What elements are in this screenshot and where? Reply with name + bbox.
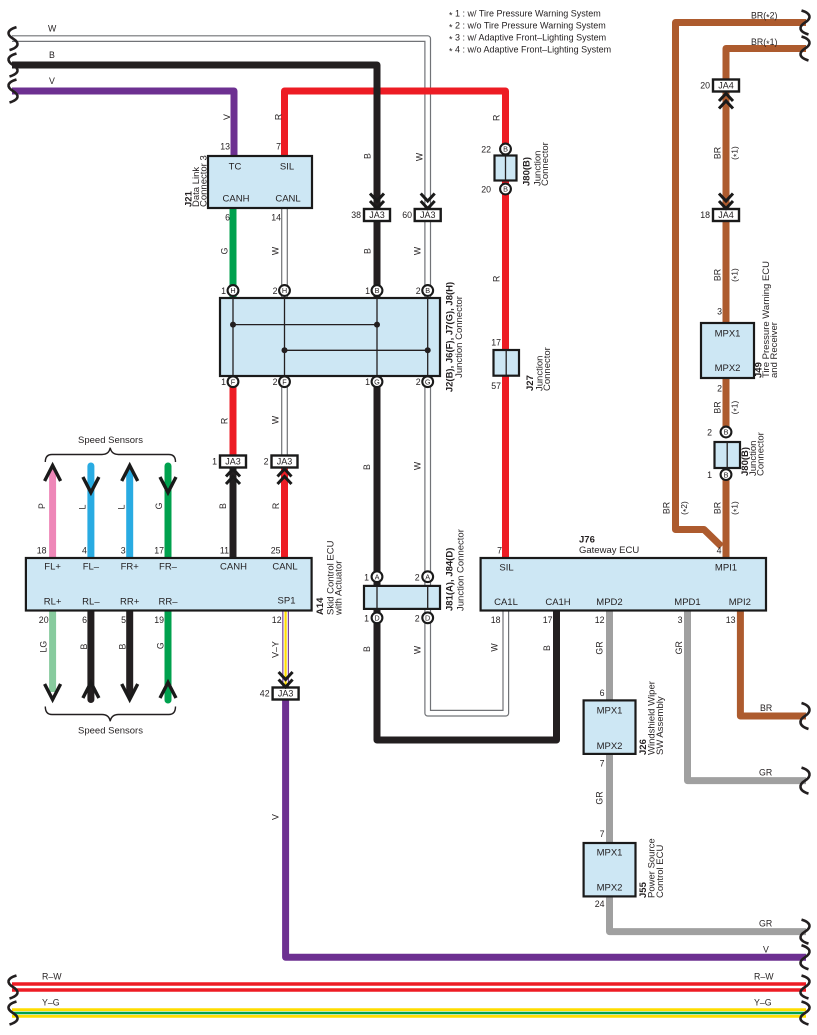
svg-text:A: A xyxy=(375,572,380,581)
svg-text:17: 17 xyxy=(491,338,501,348)
svg-text:FR–: FR– xyxy=(159,562,178,573)
wire BR J76 MPI2 pin13 to right xyxy=(740,611,806,716)
svg-text:B: B xyxy=(362,646,372,652)
ECU J76 Gateway ECU box xyxy=(481,558,766,611)
svg-text:14: 14 xyxy=(271,213,281,223)
svg-text:SIL: SIL xyxy=(499,563,513,574)
svg-text:Y–G: Y–G xyxy=(42,998,60,1008)
svg-text:CANL: CANL xyxy=(272,562,297,573)
svg-text:7: 7 xyxy=(600,759,605,769)
arrow double chevron up into JA3-2 xyxy=(278,469,292,484)
break squiggle right BR xyxy=(800,703,809,729)
svg-text:B: B xyxy=(503,185,508,194)
arrow up speed sensor RL- xyxy=(83,683,99,699)
wire B junction G1 to J81 A1 xyxy=(374,376,381,586)
wire LG speed sensor RL+ xyxy=(49,610,56,692)
svg-text:42: 42 xyxy=(260,688,270,698)
svg-text:MPI2: MPI2 xyxy=(729,597,751,608)
break squiggle right R-W xyxy=(800,976,809,999)
svg-text:SIL: SIL xyxy=(280,162,294,173)
wire L speed sensor FL- xyxy=(87,466,94,558)
break squiggle right BR(*1) xyxy=(800,37,809,61)
svg-text:R: R xyxy=(271,503,281,509)
svg-text:B: B xyxy=(425,286,430,295)
svg-text:R: R xyxy=(492,115,502,121)
arrow down speed sensor RL+ xyxy=(45,684,61,700)
svg-text:* 2 : w/o Tire Pressure Warnin: * 2 : w/o Tire Pressure Warning System xyxy=(449,21,606,33)
svg-text:57: 57 xyxy=(491,381,501,391)
svg-text:Control ECU: Control ECU xyxy=(655,845,666,898)
svg-text:13: 13 xyxy=(726,615,736,625)
arrow double chevron down into JA3-60 xyxy=(421,194,435,209)
junction internal wires xyxy=(233,298,428,376)
arrow double chevron up into JA3-1 xyxy=(226,469,240,484)
wire GR J76 MPD1 pin3 down and right xyxy=(688,611,807,781)
svg-text:6: 6 xyxy=(82,615,87,625)
svg-text:W: W xyxy=(413,246,423,255)
svg-text:L: L xyxy=(78,504,88,509)
svg-text:JA3: JA3 xyxy=(278,689,294,699)
svg-text:B: B xyxy=(363,153,373,159)
svg-text:G: G xyxy=(156,642,166,649)
svg-text:J81(A), J84(D): J81(A), J84(D) xyxy=(445,548,456,611)
svg-text:CANH: CANH xyxy=(220,562,247,573)
wire V JA3-42 down and across bottom xyxy=(286,700,806,958)
svg-text:Junction Connector: Junction Connector xyxy=(456,529,467,611)
connector JA3-60 box xyxy=(415,209,441,221)
svg-text:B: B xyxy=(724,428,729,437)
circle letters xyxy=(230,145,728,623)
wire B speed sensor RL- xyxy=(87,610,94,700)
svg-text:1: 1 xyxy=(365,377,370,387)
pin circles J81 row D xyxy=(372,612,383,623)
svg-text:LG: LG xyxy=(39,641,49,653)
connector JA4-20 box xyxy=(713,80,739,92)
wire V top-left to J21 TC xyxy=(12,91,234,156)
svg-text:7: 7 xyxy=(600,829,605,839)
svg-text:2: 2 xyxy=(415,613,420,623)
break squiggle right Y-G xyxy=(800,1002,809,1025)
svg-text:W: W xyxy=(271,415,281,424)
svg-text:B: B xyxy=(542,645,552,651)
svg-text:W: W xyxy=(415,152,425,161)
svg-text:18: 18 xyxy=(491,615,501,625)
wire BR(*2) right column xyxy=(676,23,807,547)
svg-text:Connector: Connector xyxy=(542,347,553,391)
wire Y-G bottom xyxy=(12,1008,806,1017)
svg-text:MPX1: MPX1 xyxy=(715,329,741,340)
svg-text:R: R xyxy=(274,114,284,120)
break squiggle right BR(*2) xyxy=(800,11,809,35)
svg-text:FL–: FL– xyxy=(83,562,100,573)
svg-text:25: 25 xyxy=(271,546,281,556)
wire BR J49 pin2 to J80(B) xyxy=(723,378,730,432)
wire B J81 D1 down, across, up to J76 CA1H xyxy=(377,609,557,740)
ECU A14 Skid Control ECU with Actuator box xyxy=(26,558,312,611)
svg-text:6: 6 xyxy=(225,213,230,223)
svg-text:TC: TC xyxy=(229,162,242,173)
svg-text:G: G xyxy=(374,377,380,386)
svg-text:Connector: Connector xyxy=(540,142,551,186)
svg-text:MPI1: MPI1 xyxy=(715,563,737,574)
svg-text:2: 2 xyxy=(707,428,712,438)
speed sensors captions xyxy=(78,435,143,737)
svg-text:W: W xyxy=(48,24,57,34)
svg-text:MPX1: MPX1 xyxy=(597,848,623,859)
brace speed sensors top xyxy=(45,448,175,462)
svg-text:1: 1 xyxy=(365,286,370,296)
arrow up speed sensor FL+ xyxy=(45,466,61,482)
svg-text:2: 2 xyxy=(273,377,278,387)
arrow down speed sensor FL- xyxy=(83,477,99,493)
svg-text:B: B xyxy=(375,286,380,295)
svg-text:7: 7 xyxy=(276,142,281,152)
svg-text:3: 3 xyxy=(678,615,683,625)
svg-text:12: 12 xyxy=(595,615,605,625)
svg-text:G: G xyxy=(220,247,230,254)
svg-text:1: 1 xyxy=(364,572,369,582)
svg-text:GR: GR xyxy=(759,768,772,778)
box port labels xyxy=(44,162,751,894)
component designator labels xyxy=(184,142,781,898)
svg-text:P: P xyxy=(37,503,47,509)
break squiggle left V xyxy=(8,80,17,103)
wire R-W bottom xyxy=(12,982,806,991)
svg-text:* 3 : w/ Adaptive Front–Lighti: * 3 : w/ Adaptive Front–Lighting System xyxy=(449,33,606,45)
pin circles junction J2 row F/G xyxy=(228,376,239,387)
svg-text:SP1: SP1 xyxy=(278,596,296,607)
svg-text:FL+: FL+ xyxy=(44,562,61,573)
svg-text:19: 19 xyxy=(154,615,164,625)
notes legend xyxy=(449,9,611,57)
wire BR(*1) top right to JA4-20 xyxy=(726,49,806,81)
svg-text:Gateway ECU: Gateway ECU xyxy=(579,545,639,556)
svg-text:(*1): (*1) xyxy=(730,146,742,160)
svg-text:MPD2: MPD2 xyxy=(596,597,622,608)
svg-text:Connector: Connector xyxy=(756,432,767,476)
svg-text:* 1 : w/ Tire Pressure Warning: * 1 : w/ Tire Pressure Warning System xyxy=(449,9,601,21)
svg-text:BR: BR xyxy=(760,703,772,713)
svg-text:J76: J76 xyxy=(579,535,595,546)
svg-text:2: 2 xyxy=(717,384,722,394)
svg-text:Connector 3: Connector 3 xyxy=(199,155,210,207)
svg-text:Speed Sensors: Speed Sensors xyxy=(78,726,143,737)
pin circles J80(B) right xyxy=(721,427,732,438)
svg-text:B: B xyxy=(503,145,508,154)
svg-text:(*2): (*2) xyxy=(679,501,691,515)
svg-text:MPX1: MPX1 xyxy=(597,706,623,717)
svg-text:GR: GR xyxy=(595,791,605,804)
svg-text:W: W xyxy=(490,643,500,652)
svg-text:with Actuator: with Actuator xyxy=(334,561,345,616)
svg-text:24: 24 xyxy=(595,899,605,909)
svg-text:L: L xyxy=(116,504,126,509)
svg-text:F: F xyxy=(231,377,236,386)
pin circles J80(B) upper xyxy=(500,144,511,155)
arrow double chevron down into JA4-18 xyxy=(719,194,733,209)
wire BR J80(B) to J76 MPI1 pin4 xyxy=(723,475,730,558)
wire B speed sensor RR+ xyxy=(126,610,133,696)
svg-text:JA3: JA3 xyxy=(420,210,436,220)
svg-text:RR+: RR+ xyxy=(120,597,140,608)
svg-text:Speed Sensors: Speed Sensors xyxy=(78,435,143,446)
svg-text:CA1H: CA1H xyxy=(545,597,570,608)
wire L speed sensor FR+ xyxy=(126,469,133,558)
svg-text:B: B xyxy=(79,644,89,650)
svg-text:W: W xyxy=(413,645,423,654)
svg-text:R–W: R–W xyxy=(754,972,774,982)
svg-text:JA3: JA3 xyxy=(277,457,293,467)
svg-text:2: 2 xyxy=(415,572,420,582)
junction connector J80(B) upper box xyxy=(495,156,517,181)
junction connector J2(B),J6(F),J7(G),J8(H) box xyxy=(220,298,440,376)
wire G J21 CANH pin6 to junction H1 xyxy=(230,208,237,298)
break squiggle left R-W xyxy=(8,976,17,999)
wire GR J76 MPD2 to J26 xyxy=(606,611,613,700)
svg-text:CA1L: CA1L xyxy=(494,597,518,608)
svg-text:Y–G: Y–G xyxy=(754,998,772,1008)
svg-text:F: F xyxy=(282,377,287,386)
svg-text:A14: A14 xyxy=(315,597,326,615)
svg-text:V: V xyxy=(49,76,55,86)
svg-text:3: 3 xyxy=(121,546,126,556)
svg-text:G: G xyxy=(425,377,431,386)
svg-text:R–W: R–W xyxy=(42,972,62,982)
svg-text:20: 20 xyxy=(481,185,491,195)
connector JA3-2 box xyxy=(272,456,298,468)
wire G speed sensor RR- xyxy=(165,610,172,700)
svg-text:G: G xyxy=(154,502,164,509)
svg-text:2: 2 xyxy=(273,286,278,296)
svg-text:60: 60 xyxy=(402,210,412,220)
svg-text:22: 22 xyxy=(481,145,491,155)
svg-text:B: B xyxy=(363,248,373,254)
svg-text:11: 11 xyxy=(220,546,229,556)
svg-text:D: D xyxy=(425,614,430,623)
svg-text:GR: GR xyxy=(674,641,684,654)
wire W junction F2 to JA3-2 xyxy=(281,376,288,456)
svg-text:BR: BR xyxy=(713,147,723,159)
wire P speed sensor FL+ xyxy=(49,469,56,558)
svg-text:MPX2: MPX2 xyxy=(597,741,623,752)
svg-text:1: 1 xyxy=(212,456,217,466)
wire W J21 CANL pin14 to junction H2 xyxy=(281,208,288,298)
svg-text:B: B xyxy=(218,503,228,509)
svg-text:RL–: RL– xyxy=(82,597,100,608)
svg-text:and Receiver: and Receiver xyxy=(769,322,780,378)
svg-text:BR: BR xyxy=(662,502,672,514)
wire GR J26 pin7 to J55 pin7 xyxy=(606,754,613,843)
svg-text:3: 3 xyxy=(717,307,722,317)
svg-text:GR: GR xyxy=(759,919,772,929)
break squiggle right GR J55 xyxy=(800,920,809,944)
svg-text:38: 38 xyxy=(351,210,361,220)
connector JA3-38 box xyxy=(364,209,390,221)
break squiggle left W xyxy=(8,27,17,50)
wire B top horizontal down through JA3-38 to junction B1 xyxy=(12,65,377,298)
pin circles junction J2 row H/B xyxy=(228,144,732,624)
connector JA3-1 box xyxy=(220,456,246,468)
wire W top horizontal to CA1L (white wire, outlined) xyxy=(12,39,506,714)
svg-text:1: 1 xyxy=(221,377,226,387)
svg-text:B: B xyxy=(724,470,729,479)
svg-text:CANL: CANL xyxy=(275,194,300,205)
svg-text:BR: BR xyxy=(713,502,723,514)
svg-text:13: 13 xyxy=(220,142,230,152)
connector J21 Data Link Connector 3 xyxy=(208,156,312,208)
svg-text:B: B xyxy=(49,50,55,60)
J55 Power Source Control ECU box xyxy=(584,843,636,896)
svg-text:1: 1 xyxy=(364,613,369,623)
svg-text:JA3: JA3 xyxy=(225,457,241,467)
svg-text:2: 2 xyxy=(264,456,269,466)
svg-text:17: 17 xyxy=(154,546,164,556)
svg-text:6: 6 xyxy=(600,688,605,698)
wire R JA3-2 to A14 CANL pin25 xyxy=(281,467,288,558)
svg-text:7: 7 xyxy=(497,546,502,556)
svg-text:JA4: JA4 xyxy=(718,210,734,220)
break squiggle right V xyxy=(800,945,809,969)
svg-text:(*1): (*1) xyxy=(730,268,742,282)
svg-text:D: D xyxy=(374,614,379,623)
svg-text:20: 20 xyxy=(700,80,710,90)
svg-text:SW Assembly: SW Assembly xyxy=(655,696,666,755)
svg-text:MPX2: MPX2 xyxy=(715,363,741,374)
svg-text:4: 4 xyxy=(82,546,87,556)
arrow up speed sensor RR- xyxy=(160,683,176,699)
J26 Windshield Wiper SW Assembly box xyxy=(584,700,636,754)
junction connector J80(B) right box xyxy=(715,442,741,468)
break squiggle left B xyxy=(8,54,17,77)
junction internal node dots xyxy=(230,322,431,354)
svg-text:BR: BR xyxy=(713,401,723,413)
svg-text:R: R xyxy=(220,418,230,424)
arrow double chevron down into JA3-38 xyxy=(370,194,384,209)
svg-text:JA4: JA4 xyxy=(718,81,734,91)
rotated wire color labels xyxy=(37,114,722,820)
arrow double chevron up into JA4-20 xyxy=(719,94,733,109)
junction connector J81(A),J84(D) box xyxy=(364,586,440,609)
svg-text:H: H xyxy=(282,286,287,295)
svg-text:4: 4 xyxy=(717,546,722,556)
pin circles J81 row A xyxy=(372,571,383,582)
svg-text:B: B xyxy=(118,644,128,650)
svg-text:J80(B): J80(B) xyxy=(522,157,533,186)
svg-text:JA3: JA3 xyxy=(369,210,385,220)
svg-text:1: 1 xyxy=(707,470,712,480)
svg-text:BR: BR xyxy=(713,269,723,281)
svg-text:(*1): (*1) xyxy=(730,501,742,515)
svg-text:18: 18 xyxy=(700,210,710,220)
svg-text:2: 2 xyxy=(416,377,421,387)
ECU J49 Tire Pressure Warning ECU and Receiver box xyxy=(701,323,754,378)
wire GR J55 pin24 down and right xyxy=(610,896,807,931)
svg-text:FR+: FR+ xyxy=(121,562,140,573)
svg-text:2: 2 xyxy=(416,286,421,296)
wire R main: J21 SIL up, across, down to J76 SIL xyxy=(285,91,506,558)
break squiggle left Y-G xyxy=(8,1002,17,1025)
wire G speed sensor FR- xyxy=(165,466,172,558)
svg-text:W: W xyxy=(271,246,281,255)
svg-text:H: H xyxy=(230,286,235,295)
svg-text:17: 17 xyxy=(543,615,553,625)
svg-text:5: 5 xyxy=(121,615,126,625)
wire B JA3-1 to A14 CANH pin11 xyxy=(230,467,237,558)
svg-text:A: A xyxy=(425,572,430,581)
svg-text:R: R xyxy=(492,276,502,282)
arrow up speed sensor FR+ xyxy=(122,466,138,482)
break squiggle right GR MPD1 xyxy=(800,768,809,794)
svg-text:MPX2: MPX2 xyxy=(597,883,623,894)
svg-text:RR–: RR– xyxy=(158,597,178,608)
svg-text:1: 1 xyxy=(221,286,226,296)
arrow down speed sensor FR- xyxy=(160,477,176,493)
svg-text:V: V xyxy=(270,814,280,820)
JA box labels xyxy=(225,81,734,699)
brace speed sensors bottom xyxy=(45,707,175,722)
svg-text:18: 18 xyxy=(37,546,47,556)
svg-text:V: V xyxy=(763,944,769,954)
wire BR JA4-18 to J49 pin3 xyxy=(723,221,730,324)
svg-text:W: W xyxy=(413,461,423,470)
svg-text:12: 12 xyxy=(272,615,282,625)
connector JA3-42 box xyxy=(273,688,299,700)
arrow down speed sensor RR+ xyxy=(122,684,138,700)
svg-text:B: B xyxy=(362,464,372,470)
svg-text:CANH: CANH xyxy=(223,194,250,205)
wire BR JA4-20 to JA4-18 xyxy=(723,92,730,210)
svg-text:20: 20 xyxy=(39,615,49,625)
svg-text:V–Y: V–Y xyxy=(271,641,281,658)
svg-text:RL+: RL+ xyxy=(44,597,62,608)
connector JA4-18 box xyxy=(713,209,739,221)
junction connector J27 box xyxy=(494,350,520,376)
svg-text:MPD1: MPD1 xyxy=(674,597,700,608)
svg-text:(*1): (*1) xyxy=(730,400,742,414)
wire R junction F1 to JA3-1 xyxy=(230,376,237,456)
svg-text:Junction Connector: Junction Connector xyxy=(454,296,465,378)
arrow double chevron down into JA3-42 xyxy=(279,672,293,687)
wire V-Y A14 SP1 to JA3-42 xyxy=(282,610,289,688)
svg-text:GR: GR xyxy=(595,641,605,654)
svg-text:V: V xyxy=(222,114,232,120)
svg-text:* 4 : w/o Adaptive Front–Light: * 4 : w/o Adaptive Front–Lighting System xyxy=(449,45,611,57)
